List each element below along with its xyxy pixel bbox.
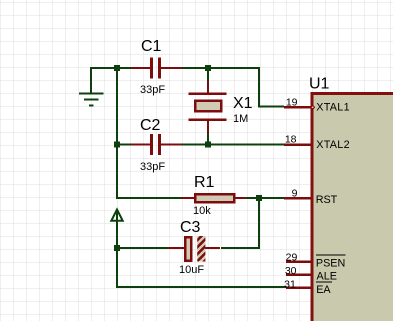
- node B junction dot (trunk / C2 row): [114, 142, 120, 148]
- wire: C2 row from trunk to C2 left lead: [117, 144, 131, 146]
- wire: C2 row to XTAL2 pin: [208, 144, 284, 146]
- pin 31 stub: [286, 286, 312, 289]
- wire: top row to XTAL1 pin: [208, 68, 284, 107]
- wire: C3 row from node F to C3 left lead: [117, 247, 168, 249]
- EA pin name with overline: [316, 282, 332, 296]
- node D junction dot (C2 row / crystal bottom): [205, 142, 211, 148]
- svg-text:10uF: 10uF: [179, 264, 204, 276]
- svg-text:30: 30: [285, 265, 297, 277]
- svg-text:33pF: 33pF: [140, 84, 165, 96]
- svg-text:C2: C2: [140, 117, 161, 134]
- capacitor C2: [131, 134, 182, 155]
- svg-text:C3: C3: [180, 219, 201, 236]
- capacitor C3: [168, 236, 220, 262]
- XTAL1 pin marker: [312, 103, 316, 112]
- wire: ground stem horizontal to junction A: [91, 68, 117, 93]
- crystal X1: [189, 68, 227, 145]
- svg-text:R1: R1: [194, 174, 215, 191]
- wire: R1 right lead to node E: [246, 197, 259, 199]
- svg-text:XTAL1: XTAL1: [316, 102, 350, 114]
- svg-text:31: 31: [284, 278, 296, 290]
- svg-text:U1: U1: [309, 76, 330, 93]
- node A junction dot: [114, 65, 120, 71]
- pin 18 stub: [284, 143, 311, 146]
- svg-text:10k: 10k: [193, 205, 211, 217]
- svg-text:XTAL2: XTAL2: [316, 139, 350, 151]
- svg-text:33pF: 33pF: [140, 161, 165, 173]
- wire: node E to RST pin: [259, 197, 284, 199]
- pin 30 stub: [286, 273, 312, 276]
- node F junction dot (arrow / C3 row): [114, 245, 120, 251]
- wire: node E down and left to C3 right lead: [221, 198, 259, 248]
- svg-text:29: 29: [286, 252, 298, 264]
- svg-text:PSEN: PSEN: [316, 257, 345, 269]
- svg-text:RST: RST: [316, 194, 338, 206]
- node E junction dot (RST row): [256, 195, 262, 201]
- wire: C2 right lead to node D: [182, 144, 208, 146]
- pin 9 stub: [284, 197, 311, 200]
- pin 19 stub: [284, 106, 311, 109]
- svg-text:18: 18: [285, 133, 297, 145]
- node C junction dot (top row / crystal top): [205, 65, 211, 71]
- svg-text:C1: C1: [141, 38, 162, 55]
- pin 29 stub: [286, 260, 312, 263]
- PSEN pin name with overline: [316, 255, 346, 269]
- wire: node F down to bottom row and right to EA pin: [117, 248, 287, 287]
- chip U1 body: [312, 94, 393, 321]
- ground: [79, 94, 104, 106]
- svg-text:EA: EA: [316, 284, 331, 296]
- wire: left trunk from node A down to RST row corner: [117, 68, 181, 198]
- wire: top row from junction A to C1 left lead: [117, 67, 131, 69]
- svg-text:19: 19: [286, 96, 298, 108]
- power arrow: [111, 210, 122, 249]
- wire: C1 right lead to node C: [182, 67, 208, 69]
- svg-text:1M: 1M: [233, 113, 248, 125]
- svg-text:X1: X1: [233, 95, 253, 112]
- capacitor C1: [131, 58, 182, 79]
- svg-text:ALE: ALE: [317, 270, 337, 282]
- svg-text:9: 9: [292, 187, 298, 199]
- resistor R1: [181, 194, 246, 202]
